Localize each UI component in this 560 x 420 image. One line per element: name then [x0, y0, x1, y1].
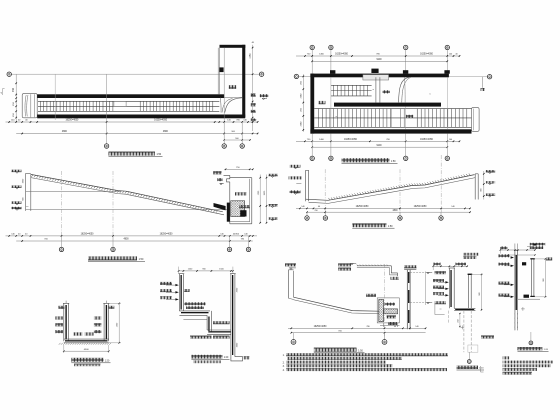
svg-text:3.: 3. — [283, 365, 285, 368]
svg-text:16250=4050: 16250=4050 — [356, 206, 370, 208]
svg-text:9100: 9100 — [376, 59, 382, 61]
svg-text:1:20: 1:20 — [105, 360, 110, 362]
svg-text:1.: 1. — [283, 354, 285, 357]
svg-text:16250=4050: 16250=4050 — [160, 234, 174, 236]
svg-text:C: C — [296, 75, 298, 78]
svg-text:2.: 2. — [283, 361, 285, 364]
svg-text:16250=4050: 16250=4050 — [81, 234, 95, 236]
svg-text:16250=4050: 16250=4050 — [65, 120, 79, 122]
svg-text:1:50: 1:50 — [358, 349, 363, 352]
svg-text:1:50: 1:50 — [139, 258, 144, 261]
svg-text:C: C — [489, 76, 491, 79]
svg-text:40/300: 40/300 — [233, 234, 240, 236]
svg-text:9100: 9100 — [376, 145, 382, 147]
svg-text:16250=4050: 16250=4050 — [420, 139, 434, 141]
svg-text:1:50: 1:50 — [391, 160, 396, 163]
svg-text:1750: 1750 — [250, 53, 252, 59]
svg-text:16250=4050: 16250=4050 — [154, 120, 168, 122]
svg-text:16250=4050: 16250=4050 — [414, 206, 428, 208]
svg-text:4800: 4800 — [62, 131, 68, 133]
svg-text:450: 450 — [12, 87, 15, 92]
svg-text:1:20: 1:20 — [224, 357, 229, 359]
svg-text:16250=4050: 16250=4050 — [335, 54, 349, 56]
svg-text:4800: 4800 — [163, 131, 169, 133]
svg-text:1:50: 1:50 — [156, 153, 161, 156]
svg-text:4800: 4800 — [123, 239, 129, 241]
svg-text:4800: 4800 — [392, 210, 398, 212]
svg-text:1:50: 1:50 — [388, 225, 393, 228]
svg-text:16250=4050: 16250=4050 — [420, 54, 434, 56]
svg-text:4500: 4500 — [84, 349, 90, 351]
svg-text:4.: 4. — [283, 369, 285, 372]
svg-text:16250=4050: 16250=4050 — [314, 326, 328, 328]
svg-text:250: 250 — [458, 319, 460, 322]
svg-text:16250=4050: 16250=4050 — [344, 139, 358, 141]
